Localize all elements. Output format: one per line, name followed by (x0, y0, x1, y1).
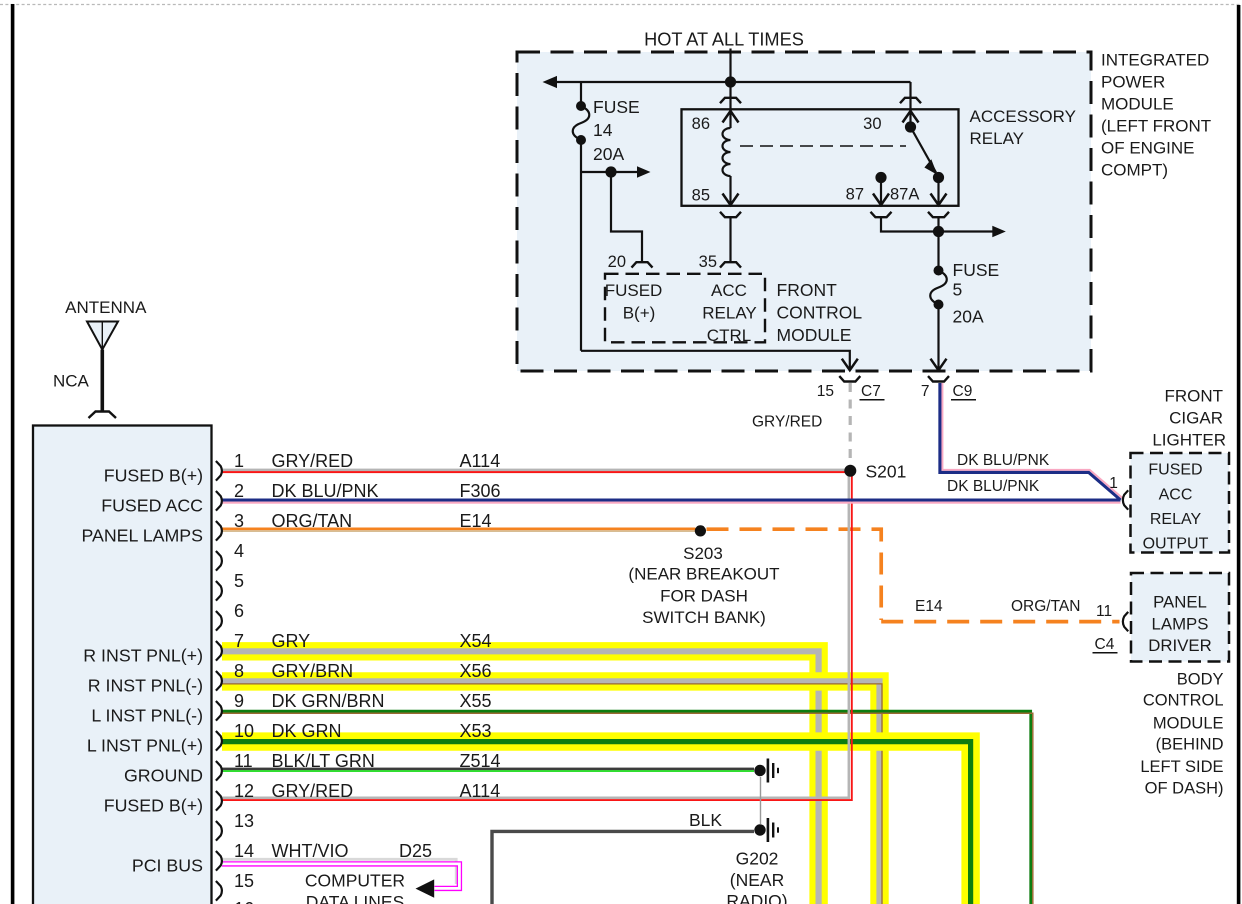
radio box (33, 426, 212, 904)
C7 female cup (839, 376, 860, 381)
svg-text:C7: C7 (861, 383, 881, 400)
radio pin 5 bracket (216, 581, 222, 601)
svg-text:15: 15 (234, 871, 254, 891)
relay pin 85 lead (729, 176, 731, 205)
svg-text:PANEL: PANEL (1153, 592, 1207, 611)
wire fuse 5 down to C9 (937, 305, 939, 369)
wire relay pin 85 down to FCM pin 35 (729, 217, 731, 262)
svg-text:MODULE: MODULE (777, 325, 852, 345)
ground symbol for pin 11 (754, 765, 765, 776)
fuse 5 symbol (930, 271, 947, 305)
svg-text:X55: X55 (460, 691, 492, 711)
wire pin2 DK BLU/PNK F306 pink tracer (222, 502, 1121, 504)
top bus left arrow (543, 76, 558, 88)
antenna mast (101, 350, 105, 411)
svg-text:PCI BUS: PCI BUS (132, 855, 203, 875)
relay pin 87 lead (880, 178, 882, 206)
wire pin3 ORG/TAN E14 orange (222, 528, 696, 531)
junction node (933, 226, 944, 237)
radio pin numbers (234, 451, 501, 904)
wire jog to pin 20 (611, 172, 642, 262)
svg-text:ORG/TAN: ORG/TAN (1011, 598, 1080, 615)
svg-text:LAMPS: LAMPS (1152, 614, 1209, 633)
svg-text:L INST PNL(+): L INST PNL(+) (87, 735, 203, 755)
wire pin8 brown tracer (222, 684, 882, 904)
antenna male hat (89, 412, 117, 419)
svg-text:7: 7 (921, 383, 930, 400)
svg-text:OUTPUT: OUTPUT (1143, 536, 1209, 553)
S203 splice node (695, 525, 706, 536)
svg-text:CTRL: CTRL (707, 326, 751, 345)
svg-text:HOT AT ALL TIMES: HOT AT ALL TIMES (644, 29, 804, 49)
svg-text:2: 2 (234, 481, 244, 501)
page top dotted border (0, 4, 1242, 6)
wire pin10 DK GRN X53 green core (222, 742, 971, 904)
svg-text:POWER: POWER (1101, 73, 1165, 92)
page right border bar (1237, 5, 1241, 904)
fuse 14 branch drop (580, 82, 582, 106)
radio pin 7 bracket (216, 641, 222, 661)
svg-text:FUSED: FUSED (605, 281, 663, 300)
pin 87 node (875, 172, 886, 183)
svg-text:SWITCH BANK): SWITCH BANK) (642, 608, 766, 627)
svg-text:DK BLU/PNK: DK BLU/PNK (272, 481, 379, 501)
svg-text:G202: G202 (736, 849, 779, 869)
svg-text:ORG/TAN: ORG/TAN (272, 511, 353, 531)
wire pin2 DK BLU/PNK F306 navy (222, 499, 1121, 502)
FCM pin 20 male hat (632, 262, 653, 267)
svg-text:11: 11 (1096, 603, 1112, 620)
wire pin8 GRY/BRN X56 gray core (222, 681, 880, 904)
svg-text:11: 11 (234, 751, 253, 771)
svg-text:PANEL LAMPS: PANEL LAMPS (81, 525, 203, 545)
svg-text:DK GRN: DK GRN (272, 721, 342, 741)
label S203 splice note (628, 544, 779, 627)
svg-text:(NEAR: (NEAR (730, 870, 784, 890)
pin 85 female cup (720, 212, 741, 217)
svg-text:86: 86 (692, 115, 710, 133)
svg-text:CONTROL: CONTROL (777, 303, 863, 323)
ground symbol G202 (754, 824, 765, 835)
svg-text:20A: 20A (953, 307, 984, 327)
C7 arrowhead (842, 359, 858, 371)
svg-text:DK BLU/PNK: DK BLU/PNK (957, 452, 1050, 469)
ground link line (760, 777, 762, 824)
svg-text:ACCESSORY: ACCESSORY (970, 107, 1076, 126)
svg-text:FUSED ACC: FUSED ACC (101, 495, 203, 515)
svg-text:BODY: BODY (1177, 671, 1224, 689)
C9 female cup (928, 376, 949, 381)
svg-text:15: 15 (817, 383, 834, 400)
svg-text:GROUND: GROUND (124, 765, 203, 785)
svg-text:DATA LINES: DATA LINES (306, 892, 405, 904)
svg-text:MODULE: MODULE (1153, 714, 1224, 732)
svg-text:35: 35 (699, 253, 717, 271)
svg-text:B(+): B(+) (623, 303, 656, 322)
pin 30 node (905, 121, 916, 132)
wire pin14 WHT/VIO D25 gray shadow (222, 859, 456, 884)
svg-text:DK BLU/PNK: DK BLU/PNK (947, 478, 1040, 495)
wire pin3 ORG/TAN E14 tan tracer (222, 530, 696, 532)
svg-text:MODULE: MODULE (1101, 95, 1174, 114)
label G202 ground note (726, 849, 787, 904)
svg-text:LEFT SIDE: LEFT SIDE (1140, 758, 1223, 776)
svg-text:RADIO): RADIO) (726, 891, 787, 904)
svg-text:1: 1 (234, 451, 244, 471)
svg-text:14: 14 (593, 120, 613, 140)
svg-text:20: 20 (608, 253, 626, 271)
svg-text:OF DASH): OF DASH) (1145, 780, 1224, 798)
panel lamps driver pin 11 bracket (1123, 612, 1128, 631)
svg-text:DRIVER: DRIVER (1148, 636, 1211, 655)
svg-text:R INST PNL(+): R INST PNL(+) (83, 645, 203, 665)
pin 30 chevron up (903, 111, 919, 123)
svg-text:FUSE: FUSE (593, 97, 640, 117)
C9 arrowhead (931, 359, 947, 371)
wire pin14 WHT/VIO D25 violet outline (222, 864, 459, 889)
svg-text:NCA: NCA (53, 371, 90, 390)
svg-text:S201: S201 (866, 462, 907, 482)
relay pin 86 lead (729, 82, 731, 128)
wire E14 ORG/TAN dashed from S203 to C4 (707, 529, 1120, 621)
radio pin 4 bracket (216, 551, 222, 571)
fused acc relay output box text (1143, 462, 1209, 553)
pin 86 chevron up (723, 111, 739, 123)
wire pin7 GRY X54 yellow highlight band (222, 651, 819, 904)
svg-text:F306: F306 (460, 481, 501, 501)
wire junction down to fuse 5 (937, 232, 939, 271)
pin 87 chevron down (873, 194, 889, 206)
svg-text:7: 7 (234, 631, 244, 651)
svg-text:FUSED B(+): FUSED B(+) (104, 465, 203, 485)
wire below fuse 14 (580, 140, 582, 351)
svg-text:D25: D25 (399, 841, 432, 861)
wire from fuse14 across to C7 (581, 350, 850, 369)
svg-text:GRY/RED: GRY/RED (752, 414, 822, 431)
wire pin7 GRY X54 gray core (222, 651, 819, 904)
radio pin 15 bracket (216, 881, 222, 901)
svg-text:X53: X53 (460, 721, 492, 741)
svg-text:CONTROL: CONTROL (1143, 692, 1224, 710)
panel lamps driver box text (1148, 592, 1211, 655)
wire pin12 GRY/RED A114 red tracer (222, 476, 852, 800)
svg-text:C4: C4 (1095, 636, 1115, 653)
wire C9 to fused acc relay output: pink tracer (942, 383, 1122, 498)
svg-text:RELAY: RELAY (970, 129, 1025, 148)
wire pin1 GRY/RED A114 red tracer (222, 471, 845, 473)
svg-text:C9: C9 (953, 383, 973, 400)
svg-text:87A: 87A (890, 186, 919, 204)
fuse 14 symbol (573, 106, 590, 140)
svg-text:5: 5 (234, 571, 244, 591)
svg-text:30: 30 (863, 115, 881, 133)
svg-text:COMPUTER: COMPUTER (305, 871, 405, 891)
svg-text:5: 5 (953, 280, 963, 300)
svg-text:CIGAR: CIGAR (1169, 409, 1223, 428)
radio pin 3 bracket (216, 521, 222, 541)
svg-text:X56: X56 (460, 661, 492, 681)
wire C9 to fused acc relay output: navy (940, 383, 1121, 500)
svg-text:ACC: ACC (1159, 486, 1193, 503)
svg-text:DK GRN/BRN: DK GRN/BRN (272, 691, 385, 711)
pin 85 chevron down (723, 194, 739, 206)
wire pin11 BLK/LT GRN Z514 black (222, 768, 754, 771)
svg-text:Z514: Z514 (460, 751, 501, 771)
svg-text:13: 13 (234, 811, 254, 831)
svg-text:BLK: BLK (689, 810, 722, 830)
accessory relay box (682, 109, 959, 206)
svg-text:RELAY: RELAY (702, 303, 757, 322)
label body control module (1140, 671, 1223, 798)
svg-text:8: 8 (234, 661, 244, 681)
fused acc relay output box (1131, 453, 1230, 553)
wire pin1 GRY/RED A114 gray (222, 469, 845, 472)
radio pin 2 bracket (216, 491, 222, 511)
wire BLK from amplifier to G202 (492, 831, 754, 904)
wire pin9 DK GRN/BRN X55 (222, 711, 1031, 904)
PCI BUS arrow (416, 879, 435, 897)
svg-text:S203: S203 (683, 544, 723, 563)
svg-text:GRY: GRY (272, 631, 311, 651)
relay coil (723, 128, 731, 176)
svg-text:(BEHIND: (BEHIND (1156, 736, 1224, 754)
svg-text:85: 85 (692, 187, 710, 205)
svg-text:12: 12 (234, 781, 254, 801)
radio pin 10 bracket (216, 731, 222, 751)
radio pin 11 bracket (216, 761, 222, 781)
svg-text:FRONT: FRONT (777, 280, 838, 300)
svg-text:ANTENNA: ANTENNA (65, 298, 147, 317)
wire pin87A to junction (937, 217, 939, 236)
svg-text:GRY/BRN: GRY/BRN (272, 661, 354, 681)
FCM internal pin names (605, 281, 757, 345)
svg-text:WHT/VIO: WHT/VIO (272, 841, 349, 861)
relay switch arm (911, 127, 937, 173)
svg-text:FUSE: FUSE (953, 260, 1000, 280)
branch to front control module pin 20 arrow line (581, 171, 638, 173)
radio pin 13 bracket (216, 821, 222, 841)
svg-text:E14: E14 (915, 598, 943, 615)
node on pin20 branch (605, 166, 616, 177)
radio pin 12 bracket (216, 791, 222, 811)
svg-text:FUSED B(+): FUSED B(+) (104, 795, 203, 815)
front control module dashed box (605, 274, 765, 343)
svg-text:E14: E14 (460, 511, 492, 531)
svg-text:INTEGRATED: INTEGRATED (1101, 51, 1209, 70)
pin 87A chevron down (931, 194, 947, 206)
svg-text:A114: A114 (460, 781, 501, 801)
wire pin14 WHT/VIO D25 white core (222, 864, 459, 889)
svg-text:87: 87 (846, 186, 864, 204)
radio pin 9 bracket (216, 701, 222, 721)
pin 87 female cup (871, 212, 892, 217)
svg-text:3: 3 (234, 511, 244, 531)
wire pin8 GRY/BRN X56 yellow highlight band (222, 681, 880, 904)
svg-text:4: 4 (234, 541, 244, 561)
relay pin 87A lead (937, 178, 939, 206)
svg-text:GRY/RED: GRY/RED (272, 451, 354, 471)
node at HOT drop (725, 76, 736, 87)
radio pin 14 bracket (216, 851, 222, 871)
svg-text:ACC: ACC (711, 281, 747, 300)
page left border bar (11, 4, 15, 904)
svg-text:(NEAR BREAKOUT: (NEAR BREAKOUT (628, 565, 779, 584)
svg-text:RELAY: RELAY (1150, 511, 1202, 528)
relay internal divider (740, 145, 906, 147)
svg-text:COMPT): COMPT) (1101, 161, 1168, 180)
switch arm arrowhead (924, 159, 937, 175)
svg-text:X54: X54 (460, 631, 492, 651)
wire C7 gray dashed drop to S201 (849, 383, 852, 466)
arrow feed to right (939, 230, 994, 232)
radio pin names (81, 465, 203, 875)
svg-text:20A: 20A (593, 144, 624, 164)
antenna symbol (87, 322, 118, 350)
svg-text:FRONT: FRONT (1164, 386, 1223, 405)
svg-text:6: 6 (234, 601, 244, 621)
svg-text:10: 10 (234, 721, 254, 741)
svg-text:L INST PNL(-): L INST PNL(-) (91, 705, 203, 725)
svg-text:FOR DASH: FOR DASH (660, 587, 748, 606)
fused acc relay output pin 1 bracket (1123, 490, 1128, 509)
FCM pin 35 male hat (720, 262, 741, 267)
svg-text:16: 16 (234, 899, 254, 904)
svg-text:OF ENGINE: OF ENGINE (1101, 139, 1195, 158)
svg-text:FUSED: FUSED (1148, 462, 1202, 479)
svg-text:LIGHTER: LIGHTER (1152, 431, 1226, 450)
svg-text:1: 1 (1109, 475, 1118, 492)
S201 splice node (844, 465, 856, 477)
radio pin 6 bracket (216, 611, 222, 631)
svg-text:A114: A114 (460, 451, 501, 471)
pin 86 male hat (720, 98, 741, 103)
HOT AT ALL TIMES feed drop (729, 49, 731, 83)
wire pin87 to junction (881, 217, 939, 231)
svg-text:BLK/LT GRN: BLK/LT GRN (272, 751, 375, 771)
panel lamps driver box (1131, 573, 1229, 662)
svg-text:9: 9 (234, 691, 244, 711)
top bus wire (556, 81, 911, 83)
svg-text:R INST PNL(-): R INST PNL(-) (88, 675, 203, 695)
svg-text:GRY/RED: GRY/RED (272, 781, 354, 801)
svg-text:14: 14 (234, 841, 254, 861)
relay pin 30 lead (909, 82, 911, 127)
svg-text:(LEFT FRONT: (LEFT FRONT (1101, 117, 1211, 136)
wire pin10 DK GRN X53 yellow highlight band (222, 742, 971, 904)
radio pin 8 bracket (216, 671, 222, 691)
radio pin 1 bracket (216, 461, 222, 481)
integrated power module box (517, 52, 1091, 371)
pin 87A female cup (928, 212, 949, 217)
pin 30 male hat (900, 98, 921, 103)
pin 87A node (933, 172, 944, 183)
wire pin12 GRY/RED A114 gray, turns up to S201 (222, 476, 849, 798)
wire pin9 brown tracer (222, 713, 1033, 904)
wire pin11 light green tracer (222, 770, 754, 772)
